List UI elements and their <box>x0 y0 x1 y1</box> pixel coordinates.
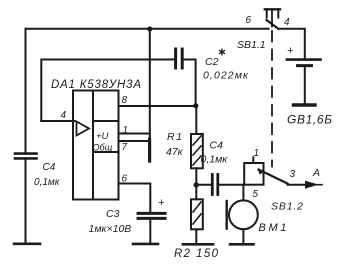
svg-text:0,022мк: 0,022мк <box>203 70 249 82</box>
svg-text:+: + <box>158 197 165 209</box>
capacitor C4 <box>15 152 37 155</box>
wire: C3 bottom to ground <box>149 220 151 244</box>
battery GB1 minus plate <box>298 64 312 67</box>
switch SB1.2 terminal 1 stub <box>252 157 254 163</box>
resistor R1 <box>195 106 197 134</box>
svg-text:А: А <box>312 167 320 179</box>
svg-text:8: 8 <box>122 95 128 106</box>
wire: junction bar at pins 1-7 <box>148 139 151 161</box>
wire: +U vertical from rail to pins 1,7 <box>149 29 151 141</box>
switch SB1.1 lever <box>267 20 279 29</box>
node A arrow <box>305 181 319 189</box>
op-amp DA1 power cell lines <box>93 121 119 152</box>
wire: cap to SB1.2 contact 5 <box>220 184 245 186</box>
microphone BM1 stem top <box>242 185 244 201</box>
node: junction dot on rail <box>147 26 152 31</box>
ground (C3) <box>133 243 158 246</box>
ground (R2) <box>183 243 213 246</box>
switch SB1.2 contact box <box>244 163 263 185</box>
svg-text:+U: +U <box>96 131 109 142</box>
svg-text:С2: С2 <box>205 56 219 68</box>
wire: pin 1 stub <box>119 133 150 135</box>
svg-text:6: 6 <box>246 15 252 26</box>
svg-text:R1: R1 <box>167 131 182 143</box>
svg-text:4: 4 <box>61 110 67 121</box>
wire: top supply rail <box>26 28 269 30</box>
svg-text:R2 150: R2 150 <box>174 248 219 260</box>
wire: R2 bottom <box>195 229 197 243</box>
svg-text:1: 1 <box>123 125 129 136</box>
wire: left vertical (rail to C4 to ground) <box>25 29 27 152</box>
label C2 asterisk <box>219 49 225 56</box>
resistor R2 <box>195 187 197 199</box>
switch SB1.2 lever <box>259 170 288 184</box>
wire: R1 bottom to node <box>195 168 197 183</box>
svg-text:SB1.2: SB1.2 <box>271 201 303 213</box>
wire: pin 4 stub <box>41 120 74 122</box>
op-amp triangle <box>77 122 90 136</box>
capacitor C2 <box>174 49 177 68</box>
svg-text:С4: С4 <box>210 140 224 152</box>
svg-text:+: + <box>287 45 294 57</box>
battery GB1 plus plate <box>287 58 321 61</box>
wire: pin 6 stub to C3 <box>119 184 151 212</box>
svg-text:3: 3 <box>290 169 296 180</box>
svg-text:С3: С3 <box>106 208 120 220</box>
wire: lever to output arrow A <box>288 184 307 186</box>
svg-text:1: 1 <box>254 148 260 159</box>
microphone BM1 membrane bar <box>225 201 227 229</box>
microphone BM1 circle <box>229 200 258 229</box>
node: R1/R2/C coupling junction <box>194 182 199 187</box>
ground (left) <box>14 243 40 246</box>
capacitor C1 coupling (labelled C4) <box>196 184 210 186</box>
wire: pin 7 stub <box>119 140 150 142</box>
wire: battery middle <box>304 67 306 103</box>
node: C2/R1/pin8 junction <box>193 103 198 108</box>
wire: left vertical below C4 <box>25 160 27 244</box>
op-amp DA1 inner divider <box>92 91 94 200</box>
svg-text:DA1 К538УН3А: DA1 К538УН3А <box>51 79 141 91</box>
svg-text:47к: 47к <box>166 146 184 158</box>
op-amp DA1 box <box>73 91 119 200</box>
svg-text:0,1мк: 0,1мк <box>201 154 229 166</box>
switch SB1.1 push-button actuator <box>265 8 280 10</box>
wire: C2 right lead down to pin 8 line <box>184 60 196 104</box>
svg-text:GB1,6Б: GB1,6Б <box>287 113 332 127</box>
svg-text:SB1.1: SB1.1 <box>237 39 266 51</box>
svg-text:0,1мк: 0,1мк <box>34 177 61 188</box>
svg-text:Общ: Общ <box>93 143 113 153</box>
capacitor C3 (polar) <box>138 212 165 215</box>
svg-text:ВМ1: ВМ1 <box>259 222 287 234</box>
svg-text:7: 7 <box>122 142 128 153</box>
wire: SB1.1 contact 4 to battery <box>278 29 305 58</box>
svg-text:С4: С4 <box>43 162 56 173</box>
svg-text:4: 4 <box>284 17 290 28</box>
svg-text:5: 5 <box>253 189 259 200</box>
wire: BM1 bottom <box>242 229 244 244</box>
wire: pin 8 to node <box>119 105 196 107</box>
battery GB1 bottom plate <box>294 103 316 106</box>
mechanical link (dashed) SB1.1 to SB1.2 <box>271 31 273 167</box>
svg-text:1мк×10В: 1мк×10В <box>89 223 132 235</box>
wire: pin 4 to C2 left plate (input loop) <box>41 60 174 122</box>
svg-text:6: 6 <box>122 174 128 185</box>
ground (BM1) <box>230 243 254 246</box>
